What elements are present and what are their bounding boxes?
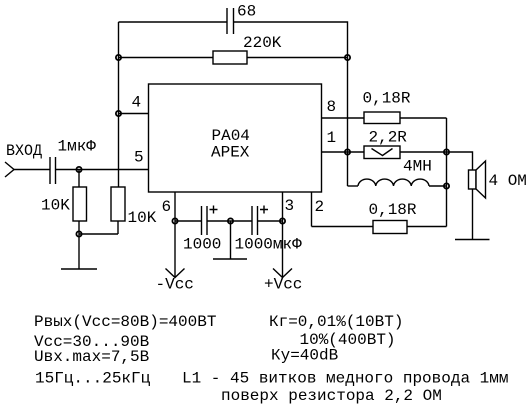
power -Vcc arrow <box>166 269 185 278</box>
svg-text:15Гц...25кГц: 15Гц...25кГц <box>35 370 151 388</box>
node: junction left rail / pin 4 <box>116 111 121 116</box>
wire: C2 to pin 5 <box>56 169 149 171</box>
wire: C4 to pin 3 rail <box>258 220 283 222</box>
wire: 220K row left segment <box>119 57 214 59</box>
resistor R 220K <box>213 51 247 64</box>
wire: C3 to center ground node <box>207 220 252 222</box>
svg-text:0,18R: 0,18R <box>363 90 411 108</box>
wire: top feedback row right segment + right feedback rail down <box>234 22 348 186</box>
wire: left feedback rail <box>118 22 120 187</box>
svg-text:ВХОД: ВХОД <box>6 142 42 160</box>
capacitor C4 1000мкФ <box>252 206 258 235</box>
node: input junction <box>76 167 81 172</box>
node: junction right feedback rail / pin 1 <box>345 149 350 154</box>
node: junction pin 6 / C3 <box>172 218 177 223</box>
wire: inductor left lead <box>348 185 359 187</box>
wire: R1 top lead <box>78 170 80 188</box>
wire: R4 to output rail <box>400 151 447 153</box>
svg-text:220K: 220K <box>243 34 282 52</box>
svg-text:5: 5 <box>134 149 144 167</box>
svg-text:Кг=0,01%(10ВТ): Кг=0,01%(10ВТ) <box>269 313 403 331</box>
svg-text:6: 6 <box>162 198 172 216</box>
svg-text:10K: 10K <box>41 197 70 215</box>
wire: center ground drop <box>230 221 232 259</box>
speaker LS1 body <box>469 170 477 189</box>
svg-text:Рвых(Vcc=80В)=400ВТ: Рвых(Vcc=80В)=400ВТ <box>34 313 216 331</box>
wire: R2 bottom lead <box>79 221 118 234</box>
ground (supply center) <box>213 258 247 260</box>
input terminal arrow <box>5 162 14 177</box>
svg-text:3: 3 <box>285 197 295 215</box>
ground (input divider) <box>61 268 97 270</box>
wire: R5 to output rail <box>407 226 447 228</box>
resistor R3 0,18R (top) <box>364 112 400 124</box>
resistor R2 10K <box>111 187 125 221</box>
svg-text:68: 68 <box>237 3 256 21</box>
wire: output node to speaker <box>447 152 473 170</box>
node: junction right rail / 220K row <box>345 55 350 60</box>
wire: R3 to right output rail <box>400 117 447 119</box>
wire: pin 2 to R5 <box>312 226 374 228</box>
svg-text:L1 - 45 витков медного провода: L1 - 45 витков медного провода 1мм <box>182 370 508 388</box>
polarity + mark C3 <box>210 206 218 214</box>
svg-text:APEX: APEX <box>211 144 250 162</box>
wire: C3 left lead <box>175 220 202 222</box>
svg-text:Uвх.max=7,5В: Uвх.max=7,5В <box>34 348 149 366</box>
wire: input to C2 <box>14 169 50 171</box>
svg-text:4 ОМ: 4 ОМ <box>489 172 527 190</box>
resistor R1 10K <box>73 187 87 221</box>
svg-text:поверх резистора 2,2 ОМ: поверх резистора 2,2 ОМ <box>221 387 442 405</box>
svg-text:1: 1 <box>327 129 337 147</box>
wire: inductor right lead <box>429 185 447 187</box>
svg-text:0,18R: 0,18R <box>369 201 417 219</box>
node: junction left rail / 220K row <box>116 55 121 60</box>
node: junction pin 3 / C4 <box>280 218 285 223</box>
ground (speaker) <box>455 239 490 241</box>
wire: 220K row right segment <box>247 57 348 59</box>
svg-text:1000мкФ: 1000мкФ <box>235 236 303 254</box>
op-amp U1 PA04 APEX body <box>149 84 322 192</box>
svg-text:Ку=40dB: Ку=40dB <box>271 347 338 365</box>
capacitor C3 1000 <box>202 206 208 235</box>
svg-text:1000: 1000 <box>183 236 221 254</box>
wire: pin 6 lead down to -Vcc <box>174 192 176 277</box>
wire: top feedback row left segment <box>119 21 228 23</box>
svg-text:4: 4 <box>132 94 142 112</box>
resistor R5 0,18R (bottom) <box>373 221 407 234</box>
svg-text:2: 2 <box>315 198 325 216</box>
resistor R4 2,2R <box>364 146 400 159</box>
power +Vcc arrow <box>273 269 292 278</box>
capacitor C2 1мкФ <box>50 157 56 184</box>
wire: pin 1 lead <box>322 151 365 153</box>
inductor L1 4МН <box>358 179 429 186</box>
wire: pin 4 lead <box>119 113 149 115</box>
svg-text:10K: 10K <box>128 209 157 227</box>
svg-text:2,2R: 2,2R <box>369 129 408 147</box>
chevron mark inside R4 <box>372 149 393 156</box>
wire: speaker bottom to ground <box>472 189 474 240</box>
wire: pin 3 lead down to +Vcc <box>282 192 284 277</box>
wire: right output rail <box>446 118 448 227</box>
svg-text:8: 8 <box>327 98 337 116</box>
svg-text:+Vcc: +Vcc <box>264 276 302 294</box>
node: center ground junction <box>228 218 233 223</box>
wire: pin 2 lead down <box>311 192 313 227</box>
wire: pin 8 lead <box>322 117 365 119</box>
node: junction output rail / R4 row <box>444 149 449 154</box>
capacitor C1 68 (feedback) <box>227 8 234 34</box>
node: junction output rail / inductor <box>444 183 449 188</box>
node: junction R1/R2 bottom <box>76 231 81 236</box>
svg-text:-Vcc: -Vcc <box>156 276 194 294</box>
polarity + mark C4 <box>260 206 268 214</box>
svg-text:1мкФ: 1мкФ <box>58 138 97 156</box>
speaker LS1 cone <box>476 161 486 198</box>
wire: R1 bottom lead to ground <box>78 221 80 269</box>
svg-text:4МН: 4МН <box>403 158 432 176</box>
svg-text:PA04: PA04 <box>212 127 250 145</box>
